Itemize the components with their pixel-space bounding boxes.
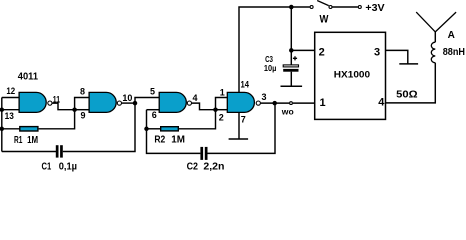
svg-text:12: 12 [6,86,15,96]
wire pin1 input jog [216,98,229,110]
svg-text:8: 8 [80,87,85,97]
ground bar pin3 HX1000 [399,63,418,65]
switch W [310,6,313,9]
node junction gate2 inputs [72,107,77,112]
svg-text:3: 3 [262,92,267,102]
wire pin8 input jog [75,98,90,110]
svg-text:2: 2 [319,46,325,58]
ground bar pin7 [229,138,249,140]
node junction rail C3 [289,5,294,10]
gate U1b 4011 pins 8,9,10 [89,92,116,112]
node junction rail R1 [0,127,4,132]
wire pin9 input [75,109,90,111]
wire pin2 of HX1000 [291,49,314,51]
wire pin4 output jog [192,103,216,110]
wire switch to +3V terminal [333,6,358,8]
wire pin14 riser and +V rail [239,7,310,92]
wire pin13 input [2,109,20,111]
svg-text:7: 7 [241,115,246,125]
wire pin7 ground lead [238,112,240,139]
terminal +3V [358,6,361,9]
svg-text:0,1µ: 0,1µ [59,162,78,172]
svg-text:4: 4 [193,93,198,103]
svg-text:+3V: +3V [365,2,384,14]
switch W arm [317,1,329,6]
gate U1c output bubble [187,101,191,105]
node junction pin6 R2 [144,127,149,132]
wire pin3 output of gate U1d [261,102,290,104]
svg-text:C2: C2 [187,162,199,173]
svg-text:R2: R2 [154,135,165,146]
svg-text:11: 11 [53,94,60,104]
wire R2 left [147,128,161,130]
gate U1c 4011 pins 5,6,4 [159,92,186,112]
wire pin4 HX1000 to coil [386,63,436,103]
svg-text:1: 1 [220,87,225,97]
svg-text:A: A [448,30,455,41]
wire pin6 input [147,109,161,111]
svg-text:4011: 4011 [18,72,39,83]
gate U1a output bubble [48,101,52,105]
node junction C3 pin2 [289,48,294,53]
ground bar C3 [281,85,303,87]
gate U1d 4011 pins 1,2,3 [227,92,254,112]
gate U1a 4011 pins 12,13,11 [19,92,46,112]
inductor L1 88nH [431,42,435,63]
capacitor C3 positive plate [283,65,298,67]
svg-text:10: 10 [122,93,132,103]
capacitor C2 [200,147,207,160]
node junction pin10 C1 pin5 [133,101,138,106]
svg-text:wo: wo [281,107,294,117]
svg-text:1M: 1M [27,135,38,146]
svg-text:W: W [320,14,329,26]
svg-text:4: 4 [378,97,385,109]
wire pin5 input jog [135,98,160,104]
svg-text:10µ: 10µ [264,63,277,73]
gate U1d output bubble [256,101,260,105]
wire pin12 input [2,97,20,99]
wire wo to pin1 HX1000 [293,102,315,104]
resistor R1 [20,127,38,131]
wire coil to antenna [434,32,436,42]
svg-text:2: 2 [219,113,224,123]
wire C1 right [63,103,135,151]
svg-text:14: 14 [241,80,250,90]
wire pin3 HX1000 to ground [386,50,408,64]
svg-text:50Ω: 50Ω [396,89,417,101]
wire left input rail of gate 1 [1,98,3,152]
node junction rail pin13 [0,107,4,112]
wire C2 right riser to gate4 output [208,103,276,153]
gate U1b output bubble [117,101,121,105]
wire pin11 output jog [52,103,74,110]
wire R1 left [2,128,20,130]
node junction gate4 inputs [213,107,218,112]
svg-text:2,2n: 2,2n [203,162,224,173]
module U2 HX1000 [315,32,386,119]
capacitor C3 negative plate [283,69,298,72]
wire pin6 riser down to R2 and C2 [147,110,201,154]
wire pin2 input [216,109,229,111]
node junction pin3 C2 [272,101,277,106]
switch W pole [329,6,332,9]
wire C1 left [2,151,56,153]
wire C3 top lead [290,50,292,65]
svg-text:1: 1 [320,97,326,109]
resistor R2 [161,127,179,131]
svg-text:HX1000: HX1000 [334,70,370,80]
svg-text:3: 3 [374,46,380,58]
svg-text:R1: R1 [14,135,23,146]
terminal wo [290,102,293,105]
capacitor C3 plus sign [293,56,297,60]
wire R1 right riser [39,110,75,129]
svg-text:13: 13 [5,111,14,121]
antenna A [416,12,456,32]
wire C3 branch from rail [290,7,292,50]
wire pin10 output [122,102,135,104]
svg-text:1M: 1M [171,135,185,146]
svg-text:88nH: 88nH [443,47,465,58]
svg-text:9: 9 [81,111,86,121]
svg-text:6: 6 [152,110,157,120]
svg-text:C1: C1 [42,162,52,172]
capacitor C1 [56,145,63,157]
wire C3 bottom lead [290,72,292,87]
svg-text:5: 5 [150,87,155,97]
wire R2 right riser [179,110,216,129]
